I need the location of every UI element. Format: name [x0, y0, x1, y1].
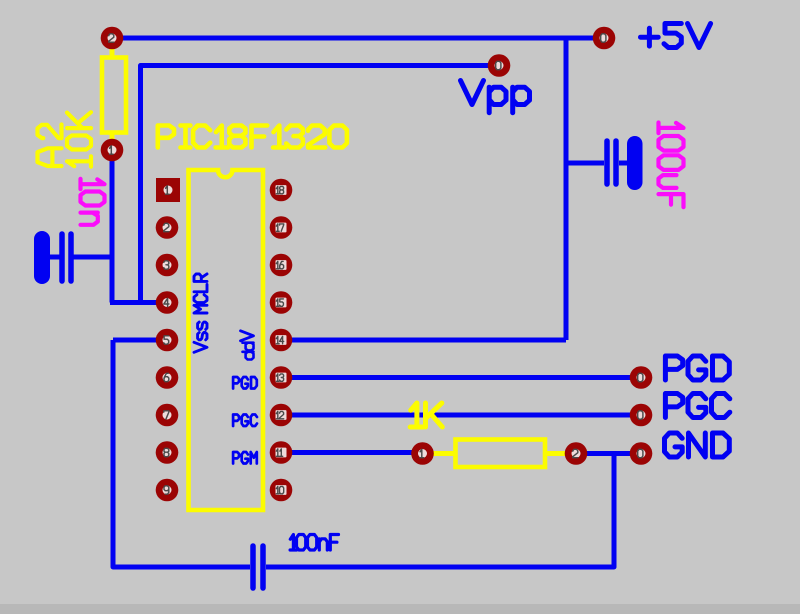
wire ground loop bottom right + right vertical: [266, 454, 614, 567]
op-amp/IC U1 PIC18F1320 outline: [189, 170, 264, 510]
capacitor C2 100uF polarized body: [627, 136, 643, 190]
label A2: [38, 148, 62, 166]
pin label Vss MCLR: [194, 274, 207, 352]
pad pin 12: [270, 404, 293, 427]
pad Vpp terminal: [488, 54, 511, 77]
wire ground loop left vertical + bottom left: [113, 340, 250, 567]
pad PGD terminal: [630, 366, 653, 389]
label 10n: [81, 179, 105, 189]
wire 10n cap inner stub: [50, 255, 60, 260]
capacitor C1 10n plate (polarized body): [34, 231, 50, 284]
label PGD: [665, 356, 729, 380]
resistor A2 10K body: [102, 58, 126, 133]
pad +5V terminal: [593, 27, 616, 50]
pad R2 pin 1: [411, 442, 434, 465]
capacitor C1 10n plates: [62, 234, 71, 281]
pad pin 8: [156, 441, 179, 464]
label Vpp: [461, 81, 530, 113]
wire +5V top rail: [112, 36, 603, 41]
pad resistor pin 1: [101, 139, 124, 162]
pad pin 2: [156, 216, 179, 239]
wire 100uF inner stub: [619, 161, 628, 166]
pin label PGM: [233, 452, 257, 464]
pad pin 4: [156, 291, 179, 314]
wire 10n cap to MCLR node: [73, 255, 114, 260]
pad pin 18: [270, 179, 293, 202]
wire 100uF cap stub: [566, 161, 604, 166]
pad PGC terminal: [630, 404, 653, 427]
pad pin 3: [156, 254, 179, 277]
wire pin14 Vdd to +5V rail: [281, 338, 566, 343]
pad pin 5: [156, 329, 179, 352]
resistor R2 leads: [432, 451, 566, 456]
label 10K: [67, 156, 91, 166]
pad pin 7: [156, 404, 179, 427]
pad resistor pin 2: [101, 27, 124, 50]
pin label PGC: [233, 415, 257, 427]
wire +5V vertical drop to Vdd: [564, 38, 569, 340]
wire pin11 PGM to R2: [281, 450, 422, 455]
pad pin 14: [270, 329, 293, 352]
pin 1 pad (square): [156, 178, 180, 202]
pin label Vdd: [241, 331, 254, 341]
label PIC18F1320: [158, 126, 347, 148]
label GND: [665, 433, 730, 457]
resistor A2 leads: [110, 45, 115, 143]
capacitor C3 100nF plates: [253, 546, 263, 588]
label 100uF: [659, 123, 684, 134]
capacitor C2 100uF plates: [607, 141, 616, 184]
pad pin 6: [156, 366, 179, 389]
wire pin4 MCLR: [110, 300, 167, 305]
pad R2 pin 2: [565, 442, 588, 465]
label PGC: [665, 394, 729, 418]
wire R2 to GND pad: [576, 451, 641, 456]
pad pin 9: [156, 479, 179, 502]
pin label PGD: [233, 377, 257, 389]
wire pin12 PGC: [281, 413, 641, 418]
pad pin 11: [270, 441, 293, 464]
pad pin 10: [270, 479, 293, 502]
label +5V: [641, 24, 711, 48]
wire pin5 Vss: [113, 338, 167, 343]
resistor R2 1K body: [456, 440, 546, 468]
wire MCLR vertical from R1 pad: [110, 150, 115, 303]
pad pin 15: [270, 291, 293, 314]
wire pin13 PGD: [281, 375, 641, 380]
label 1K: [410, 403, 442, 427]
pad pin 17: [270, 216, 293, 239]
pad GND terminal: [630, 442, 653, 465]
pad pin 16: [270, 254, 293, 277]
pad pin 13: [270, 366, 293, 389]
window bottom edge band: [0, 604, 800, 614]
label 100nF: [290, 535, 338, 551]
wire Vpp horizontal: [141, 66, 500, 303]
